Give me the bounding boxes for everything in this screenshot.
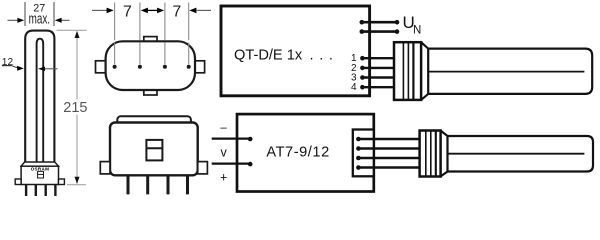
svg-text:. . .: . . . bbox=[310, 48, 333, 64]
svg-text:12: 12 bbox=[2, 57, 14, 68]
svg-text:v: v bbox=[220, 146, 227, 160]
svg-text:AT7-9/12: AT7-9/12 bbox=[266, 145, 329, 161]
svg-text:4: 4 bbox=[351, 82, 357, 93]
svg-text:N: N bbox=[413, 25, 421, 37]
svg-text:215: 215 bbox=[63, 100, 87, 116]
svg-text:–: – bbox=[220, 122, 227, 134]
svg-text:OSRAM: OSRAM bbox=[31, 167, 50, 172]
svg-text:7: 7 bbox=[123, 3, 132, 20]
svg-text:7: 7 bbox=[172, 3, 181, 20]
svg-text:max.: max. bbox=[29, 11, 50, 27]
svg-text:QT-D/E 1x: QT-D/E 1x bbox=[234, 48, 303, 64]
svg-text:+: + bbox=[220, 171, 227, 185]
